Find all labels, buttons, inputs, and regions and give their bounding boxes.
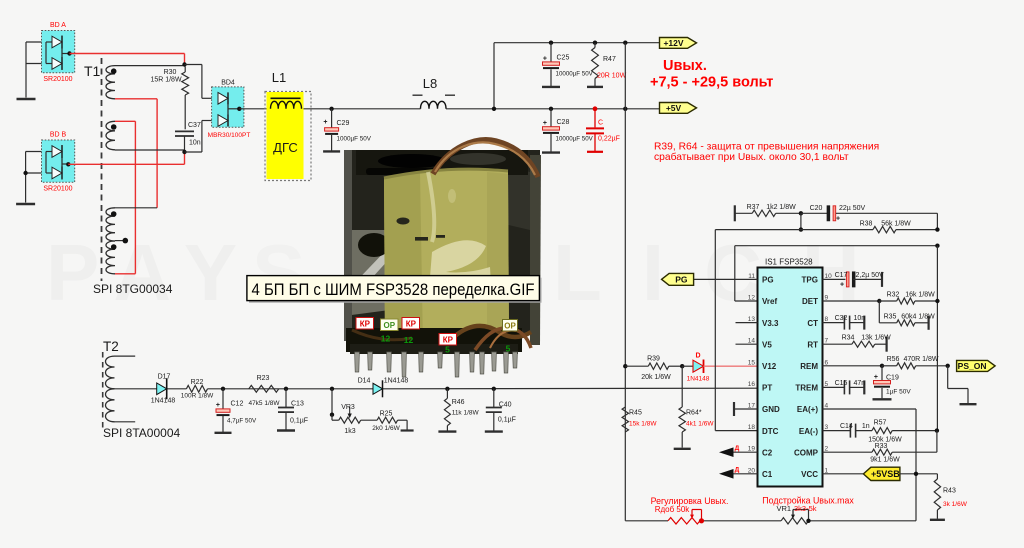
T1 winding 4 — [106, 241, 115, 274]
svg-text:+5V: +5V — [666, 103, 682, 113]
capacitor C15 47n — [823, 386, 845, 388]
svg-text:1N4148: 1N4148 — [384, 378, 409, 385]
svg-text:R35: R35 — [884, 313, 897, 320]
svg-text:КР: КР — [443, 336, 454, 345]
svg-text:4,7µF 50V: 4,7µF 50V — [227, 418, 257, 425]
resistor R33 9k1 1/6W — [823, 451, 873, 453]
svg-text:0,1µF: 0,1µF — [498, 417, 516, 424]
svg-text:SR20100: SR20100 — [43, 186, 72, 193]
svg-text:EA(-): EA(-) — [799, 427, 818, 436]
svg-text:12: 12 — [404, 335, 414, 345]
transformer T2 core (dashed) — [102, 352, 104, 430]
T1 winding 2 — [106, 121, 115, 150]
svg-text:R46: R46 — [452, 399, 465, 406]
svg-text:T2: T2 — [103, 339, 119, 354]
svg-text:C20: C20 — [810, 205, 823, 212]
wire vertical 494 (secondary to +12V rail) — [493, 43, 495, 109]
node C13 — [284, 387, 288, 391]
svg-text:PG: PG — [675, 274, 688, 284]
svg-text:D: D — [695, 353, 700, 360]
svg-text:L1: L1 — [272, 70, 286, 85]
node R46 — [445, 387, 449, 391]
svg-text:Д: Д — [735, 445, 740, 452]
tag +5V — [660, 103, 697, 114]
resistor R34 13k 1/6W — [823, 343, 852, 345]
resistor R47 20R 10W — [593, 41, 597, 45]
wire EA+ to bottom — [823, 408, 917, 410]
node +5V rail at 625 — [623, 107, 627, 111]
pin label OP 1 — [381, 319, 399, 331]
svg-text:BD B: BD B — [50, 132, 67, 139]
bridge rectifier BD A (SR20100) — [42, 31, 75, 73]
svg-text:BD4: BD4 — [221, 80, 235, 87]
svg-text:+: + — [874, 374, 878, 381]
resistor R43 3k 1/6W — [936, 474, 938, 479]
resistor R56 470R 1/8W — [882, 365, 897, 367]
svg-text:0,22µF: 0,22µF — [598, 136, 620, 143]
T1 winding 3 — [106, 208, 115, 241]
svg-text:IS1 FSP3528: IS1 FSP3528 — [765, 258, 813, 267]
capacitor C29 1000µF 50V — [331, 109, 333, 128]
svg-text:CT: CT — [807, 319, 818, 328]
resistor R45 15k 1/8W — [622, 407, 628, 432]
svg-text:PT: PT — [762, 384, 772, 393]
svg-text:13k 1/6W: 13k 1/6W — [861, 335, 891, 342]
svg-text:1k3: 1k3 — [344, 428, 355, 435]
svg-text:C17: C17 — [835, 272, 848, 279]
svg-text:SR20100: SR20100 — [43, 76, 72, 83]
svg-text:0,1µF: 0,1µF — [290, 418, 308, 425]
svg-text:9k1 1/6W: 9k1 1/6W — [870, 457, 900, 464]
svg-text:DET: DET — [802, 297, 818, 306]
node R38 line left — [799, 227, 803, 231]
wire L8 to +5V rail — [446, 108, 660, 110]
bridge rectifier BD B (SR20100) — [42, 140, 75, 182]
svg-text:C14: C14 — [840, 423, 853, 430]
wire L1 to C29 node — [304, 108, 421, 110]
svg-text:Rдоб 50k: Rдоб 50k — [655, 505, 691, 514]
svg-text:R32: R32 — [887, 292, 900, 299]
capacitor C12 4,7µF 50V — [222, 389, 224, 409]
pin label KR 2 — [402, 318, 420, 330]
resistor R57 150k 1/6W — [872, 428, 892, 434]
svg-text:20k 1/6W: 20k 1/6W — [641, 374, 671, 381]
T1 center tap — [115, 240, 125, 242]
capacitor C28 10000µF 50V — [549, 107, 553, 111]
svg-text:Vref: Vref — [762, 297, 777, 306]
diode D14 1N4148 — [373, 383, 383, 394]
node BD B output — [66, 162, 70, 166]
svg-text:4 БП БП с ШИМ FSP3528 переделк: 4 БП БП с ШИМ FSP3528 переделка.GIF — [252, 281, 535, 299]
svg-text:R57: R57 — [874, 420, 887, 427]
svg-text:16: 16 — [748, 381, 756, 388]
svg-text:+: + — [836, 216, 840, 223]
svg-text:2,2µ 50V: 2,2µ 50V — [856, 272, 884, 279]
svg-text:12: 12 — [381, 334, 391, 344]
node top of vertical rail 625 — [623, 41, 627, 45]
svg-text:R39: R39 — [647, 356, 660, 363]
resistor R35 60k4 1/8W — [878, 301, 880, 323]
tag +5VSB — [863, 467, 900, 480]
wire C20 down to R38 line — [936, 213, 938, 229]
svg-text:1N4148: 1N4148 — [151, 398, 176, 405]
svg-text:D14: D14 — [358, 378, 371, 385]
node R39-D junction — [680, 364, 684, 368]
wire DET line — [823, 300, 880, 302]
ground under PS_ON — [947, 366, 949, 389]
resistor R23 47k5 1/8W — [249, 385, 279, 392]
node C40 — [492, 387, 496, 391]
capacitor C14 1n — [823, 430, 851, 432]
svg-text:16k 1/8W: 16k 1/8W — [905, 292, 935, 299]
node C12 — [221, 387, 225, 391]
resistor R25 2k0 1/6W — [361, 419, 377, 421]
svg-text:+: + — [323, 119, 327, 126]
svg-text:+: + — [840, 282, 844, 289]
svg-text:ОР: ОР — [504, 322, 516, 331]
svg-text:D17: D17 — [158, 374, 171, 381]
wire main bottom line from T2 to IC pin 16 — [115, 388, 157, 390]
svg-text:22µ 50V: 22µ 50V — [839, 205, 866, 212]
svg-text:MBR30/100PT: MBR30/100PT — [208, 132, 251, 139]
ground (below BD B) — [25, 173, 27, 203]
wire R38 line — [715, 229, 873, 231]
svg-text:PS_ON: PS_ON — [958, 361, 987, 371]
potentiometer Rdob 50k (red) — [668, 518, 700, 524]
resistor R30 15R 1/8W — [184, 65, 187, 68]
svg-text:100R 1/8W: 100R 1/8W — [181, 393, 214, 400]
svg-text:RT: RT — [807, 340, 818, 349]
wire red BD B output to C37 node — [68, 163, 184, 165]
resistor R46 11k 1/8W — [446, 389, 448, 399]
svg-text:60k4 1/8W: 60k4 1/8W — [901, 313, 935, 320]
svg-text:10n: 10n — [189, 140, 201, 147]
svg-text:C25: C25 — [557, 55, 570, 62]
node BD4 output — [237, 107, 241, 111]
wire T1 w3 top — [115, 207, 157, 209]
resistor R37 1k2 1/8W — [734, 205, 736, 221]
svg-text:470R 1/8W: 470R 1/8W — [903, 356, 938, 363]
svg-text:V3.3: V3.3 — [762, 319, 779, 328]
svg-text:47n: 47n — [854, 380, 866, 387]
node DET — [877, 299, 881, 303]
svg-text:15: 15 — [748, 359, 756, 366]
svg-text:BD A: BD A — [50, 22, 66, 29]
svg-text:11k 1/8W: 11k 1/8W — [452, 410, 480, 417]
IC pin19 C2 arrow — [733, 451, 758, 453]
svg-text:PG: PG — [762, 276, 774, 285]
svg-text:S: S — [252, 228, 305, 317]
svg-text:C32: C32 — [835, 315, 848, 322]
capacitor C17 2,2µ 50V — [823, 278, 846, 280]
svg-text:R22: R22 — [191, 379, 204, 386]
svg-text:C13: C13 — [291, 401, 304, 408]
svg-text:R47: R47 — [603, 56, 616, 63]
node V12 line at rail 625 — [623, 364, 627, 368]
node DET right rail — [935, 299, 939, 303]
svg-text:R64*: R64* — [686, 410, 702, 417]
tooltip filename box — [249, 278, 542, 303]
svg-text:R45: R45 — [629, 410, 642, 417]
wire bottom line — [625, 520, 668, 522]
svg-text:V5: V5 — [762, 340, 772, 349]
svg-text:10000µF 50V: 10000µF 50V — [556, 136, 594, 143]
diode D17 1N4148 — [157, 383, 167, 395]
capacitor C25 10000µF 50V — [549, 41, 553, 45]
resistor R39 20k 1/6W — [625, 365, 648, 367]
svg-text:R34: R34 — [842, 335, 855, 342]
wire red T1 w2 top loop — [115, 120, 135, 122]
potentiometer VR1 3k3-5k — [781, 518, 808, 524]
choke L1 box — [265, 92, 311, 181]
svg-text:PAY: PAY — [46, 228, 257, 317]
wire T1 w1 top to R30 node — [115, 65, 185, 67]
wire BD A anodes to left rail — [26, 41, 46, 43]
capacitor C19 1µF 50V — [881, 366, 883, 381]
resistor R22 100R 1/8W — [186, 385, 207, 392]
svg-text:C: C — [598, 120, 603, 127]
wire C37 node to BD4 lower input — [185, 151, 202, 153]
ground (below BD A) — [25, 64, 27, 98]
svg-text:T1: T1 — [84, 63, 101, 79]
node R57 right — [935, 428, 939, 432]
trimmer VR3 1k3 — [331, 389, 333, 415]
vertical rail x=937 right of IC — [936, 246, 938, 431]
svg-text:GND: GND — [762, 405, 780, 414]
wire T1 w2 bottom to C37 node line — [115, 149, 185, 151]
T2 winding lower — [106, 389, 115, 422]
svg-text:ДГС: ДГС — [273, 140, 298, 155]
wire BD4 output to L1 — [239, 108, 266, 110]
svg-text:R37: R37 — [747, 204, 760, 211]
capacitor C13 0,1µF — [285, 389, 287, 408]
svg-text:15R 1/8W: 15R 1/8W — [150, 77, 182, 84]
wire red BD A output to R30 node — [70, 53, 185, 55]
svg-text:1n: 1n — [862, 423, 870, 430]
svg-text:1k2 1/8W: 1k2 1/8W — [766, 204, 796, 211]
svg-text:10n: 10n — [854, 315, 866, 322]
svg-text:+: + — [543, 120, 547, 127]
resistor R32 16k 1/8W — [879, 300, 896, 302]
inductor L1 winding — [271, 97, 301, 99]
svg-text:5: 5 — [506, 344, 511, 354]
IC pin14 stub — [736, 343, 758, 345]
tag +12V — [660, 38, 697, 49]
svg-text:56k 1/8W: 56k 1/8W — [881, 221, 911, 228]
wire R30 node to BD4 upper input — [185, 64, 202, 66]
svg-text:10000µF 50V: 10000µF 50V — [556, 71, 594, 78]
svg-text:R33: R33 — [875, 443, 888, 450]
svg-text:V12: V12 — [762, 362, 777, 371]
svg-text:R30: R30 — [164, 69, 177, 76]
svg-text:C1: C1 — [762, 470, 773, 479]
capacitor C 0,22µF (red) — [593, 106, 598, 111]
transformer T1 core (dashed) — [101, 58, 103, 281]
wire VCC line — [823, 473, 864, 475]
IC pin13 stub — [736, 322, 758, 324]
wire +12V rail — [494, 42, 660, 44]
svg-text:срабатывает при Uвых. около 30: срабатывает при Uвых. около 30,1 вольт — [654, 151, 849, 163]
T2 leads — [115, 355, 136, 357]
svg-text:КР: КР — [360, 320, 371, 329]
T1 phase dots — [111, 68, 117, 74]
node REM — [880, 364, 884, 368]
wire Vref bracket (x=734) — [735, 245, 938, 247]
svg-text:C40: C40 — [499, 402, 512, 409]
capacitor C32 10n — [823, 322, 845, 324]
node PS_ON — [946, 364, 950, 368]
svg-text:КР: КР — [406, 320, 417, 329]
op IC IS1 FSP3528 body — [758, 268, 823, 487]
photo transformer (ferrite core) — [344, 140, 541, 354]
node C29 — [329, 107, 333, 111]
svg-text:REM: REM — [800, 362, 818, 371]
node R37-C20 — [799, 211, 803, 215]
inductor L8 — [421, 101, 447, 109]
tag PG — [693, 278, 757, 280]
T2 winding upper — [106, 356, 115, 389]
svg-text:1µF 50V: 1µF 50V — [886, 389, 911, 396]
wire REM line — [823, 365, 883, 367]
pin label KR 3 — [439, 334, 457, 346]
node bracket right — [935, 244, 939, 248]
svg-text:15k 1/8W: 15k 1/8W — [629, 421, 657, 428]
capacitor C37 10n — [175, 130, 194, 132]
svg-text:EA(+): EA(+) — [797, 405, 818, 414]
vertical rail x=625 from +12V to bottom — [624, 43, 626, 521]
node VR3 top — [330, 387, 334, 391]
svg-text:47k5 1/8W: 47k5 1/8W — [248, 400, 280, 407]
svg-text:R23: R23 — [257, 375, 270, 382]
wire BD B anodes to left rail — [26, 151, 46, 153]
photo transformer pins — [355, 352, 518, 377]
tag PS_ON — [957, 360, 996, 371]
svg-text:+12V: +12V — [663, 38, 683, 48]
svg-text:1000µF 50V: 1000µF 50V — [337, 136, 372, 143]
node BD A output — [67, 51, 71, 55]
svg-text:C19: C19 — [886, 375, 899, 382]
svg-text:18: 18 — [748, 424, 756, 431]
svg-text:VR1: VR1 — [777, 504, 792, 513]
svg-text:SPI 8TA00004: SPI 8TA00004 — [103, 426, 180, 440]
diode D 1N4148 (red) — [682, 365, 693, 367]
svg-text:R38: R38 — [860, 221, 873, 228]
svg-text:+: + — [216, 402, 220, 409]
svg-text:R25: R25 — [380, 411, 393, 418]
node C37 bottom — [182, 150, 186, 154]
svg-text:12: 12 — [748, 295, 756, 302]
svg-text:Uвых.: Uвых. — [663, 58, 707, 74]
svg-text:VCC: VCC — [801, 470, 818, 479]
svg-text:C12: C12 — [231, 401, 244, 408]
svg-text:R56: R56 — [887, 356, 900, 363]
IC pin17 GND stub — [734, 408, 758, 410]
dual diode BD4 (MBR30/100PT) — [212, 87, 244, 127]
wire red T1 w1 bottom — [115, 98, 157, 100]
svg-text:TPG: TPG — [802, 276, 818, 285]
capacitor C20 22µ 50V — [801, 212, 827, 214]
capacitor C40 0,1µF — [493, 389, 495, 408]
svg-text:VR3: VR3 — [341, 404, 355, 411]
node R38 line right — [935, 227, 939, 231]
svg-text:COMP: COMP — [794, 448, 819, 457]
svg-text:C37: C37 — [188, 122, 201, 129]
svg-text:2k0 1/6W: 2k0 1/6W — [372, 425, 400, 432]
svg-text:3k3-5k: 3k3-5k — [794, 504, 817, 513]
svg-text:3k 1/6W: 3k 1/6W — [943, 501, 968, 508]
svg-text:5: 5 — [445, 345, 450, 355]
svg-text:C29: C29 — [337, 120, 350, 127]
svg-text:+5VSB: +5VSB — [871, 469, 900, 479]
svg-text:TREM: TREM — [795, 384, 818, 393]
T1 winding 1 — [106, 66, 115, 99]
svg-text:DTC: DTC — [762, 427, 779, 436]
svg-text:20R 10W: 20R 10W — [597, 73, 627, 80]
svg-text:L8: L8 — [423, 76, 437, 91]
svg-text:R39, R64 - защита от превышени: R39, R64 - защита от превышения напряжен… — [654, 142, 879, 153]
pin label KR 1 — [356, 318, 374, 330]
svg-text:C2: C2 — [762, 448, 773, 457]
svg-text:C15: C15 — [835, 380, 848, 387]
node R30 top — [182, 62, 186, 66]
pin label OP 2 — [503, 320, 518, 332]
svg-text:SPI 8TG00034: SPI 8TG00034 — [93, 282, 173, 296]
node VCC-EA vertical — [914, 472, 918, 476]
svg-text:Д: Д — [735, 467, 740, 474]
resistor R64* 4k1 1/6W — [681, 366, 683, 407]
svg-text:4k1 1/6W: 4k1 1/6W — [686, 421, 714, 428]
wire DTC bracket (x=715) — [714, 230, 716, 431]
svg-text:1N4148: 1N4148 — [687, 376, 710, 383]
IC pin20 C1 arrow — [733, 473, 758, 475]
svg-text:ОР: ОР — [384, 321, 396, 330]
svg-text:C28: C28 — [557, 119, 570, 126]
svg-text:R43: R43 — [943, 488, 956, 495]
svg-text:+7,5 - +29,5 вольт: +7,5 - +29,5 вольт — [650, 75, 773, 91]
